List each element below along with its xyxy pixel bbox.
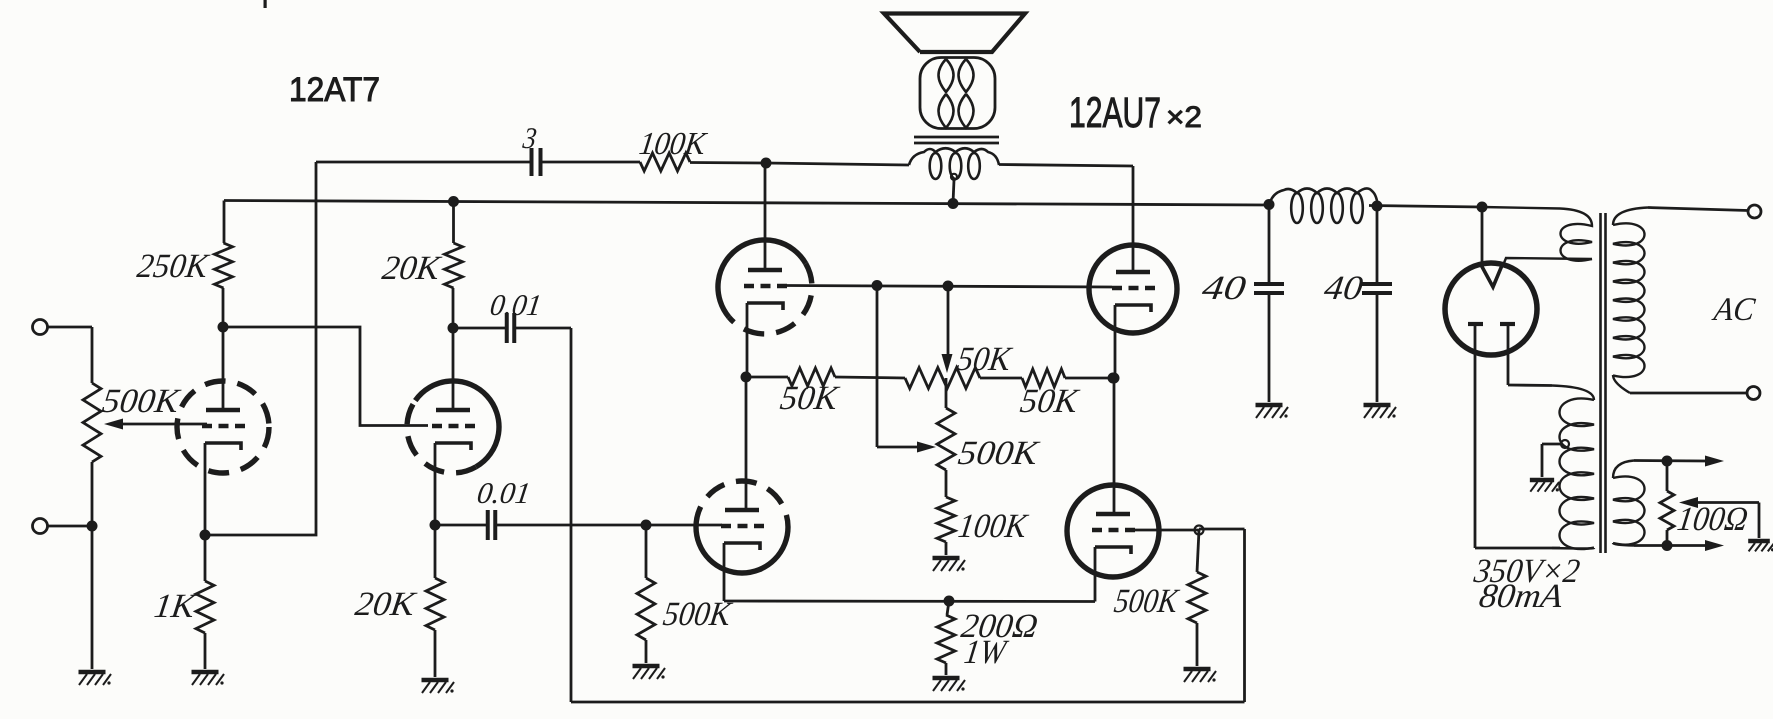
svg-text:500K: 500K — [661, 596, 735, 633]
svg-text:100Ω: 100Ω — [1675, 501, 1750, 538]
svg-text:20K: 20K — [380, 250, 444, 287]
svg-text:1K: 1K — [152, 588, 199, 625]
svg-text:250K: 250K — [135, 248, 212, 285]
svg-text:20K: 20K — [353, 586, 419, 623]
svg-text:×2: ×2 — [1166, 101, 1202, 134]
svg-text:500K: 500K — [1112, 583, 1182, 620]
svg-text:12AU7: 12AU7 — [1069, 89, 1161, 137]
svg-text:80mA: 80mA — [1477, 578, 1565, 615]
svg-text:40: 40 — [1200, 270, 1248, 307]
svg-text:50K: 50K — [1018, 383, 1082, 420]
svg-text:500K: 500K — [956, 435, 1043, 472]
svg-text:12AT7: 12AT7 — [289, 71, 380, 109]
svg-text:100K: 100K — [637, 125, 710, 161]
svg-text:500K: 500K — [100, 383, 183, 420]
svg-text:AC: AC — [1710, 291, 1758, 328]
svg-text:0.01: 0.01 — [475, 476, 533, 510]
svg-text:0.01: 0.01 — [488, 288, 544, 322]
svg-text:50K: 50K — [778, 380, 842, 417]
svg-text:40: 40 — [1322, 270, 1365, 307]
svg-text:50K: 50K — [955, 341, 1015, 378]
svg-text:100K: 100K — [956, 508, 1031, 545]
